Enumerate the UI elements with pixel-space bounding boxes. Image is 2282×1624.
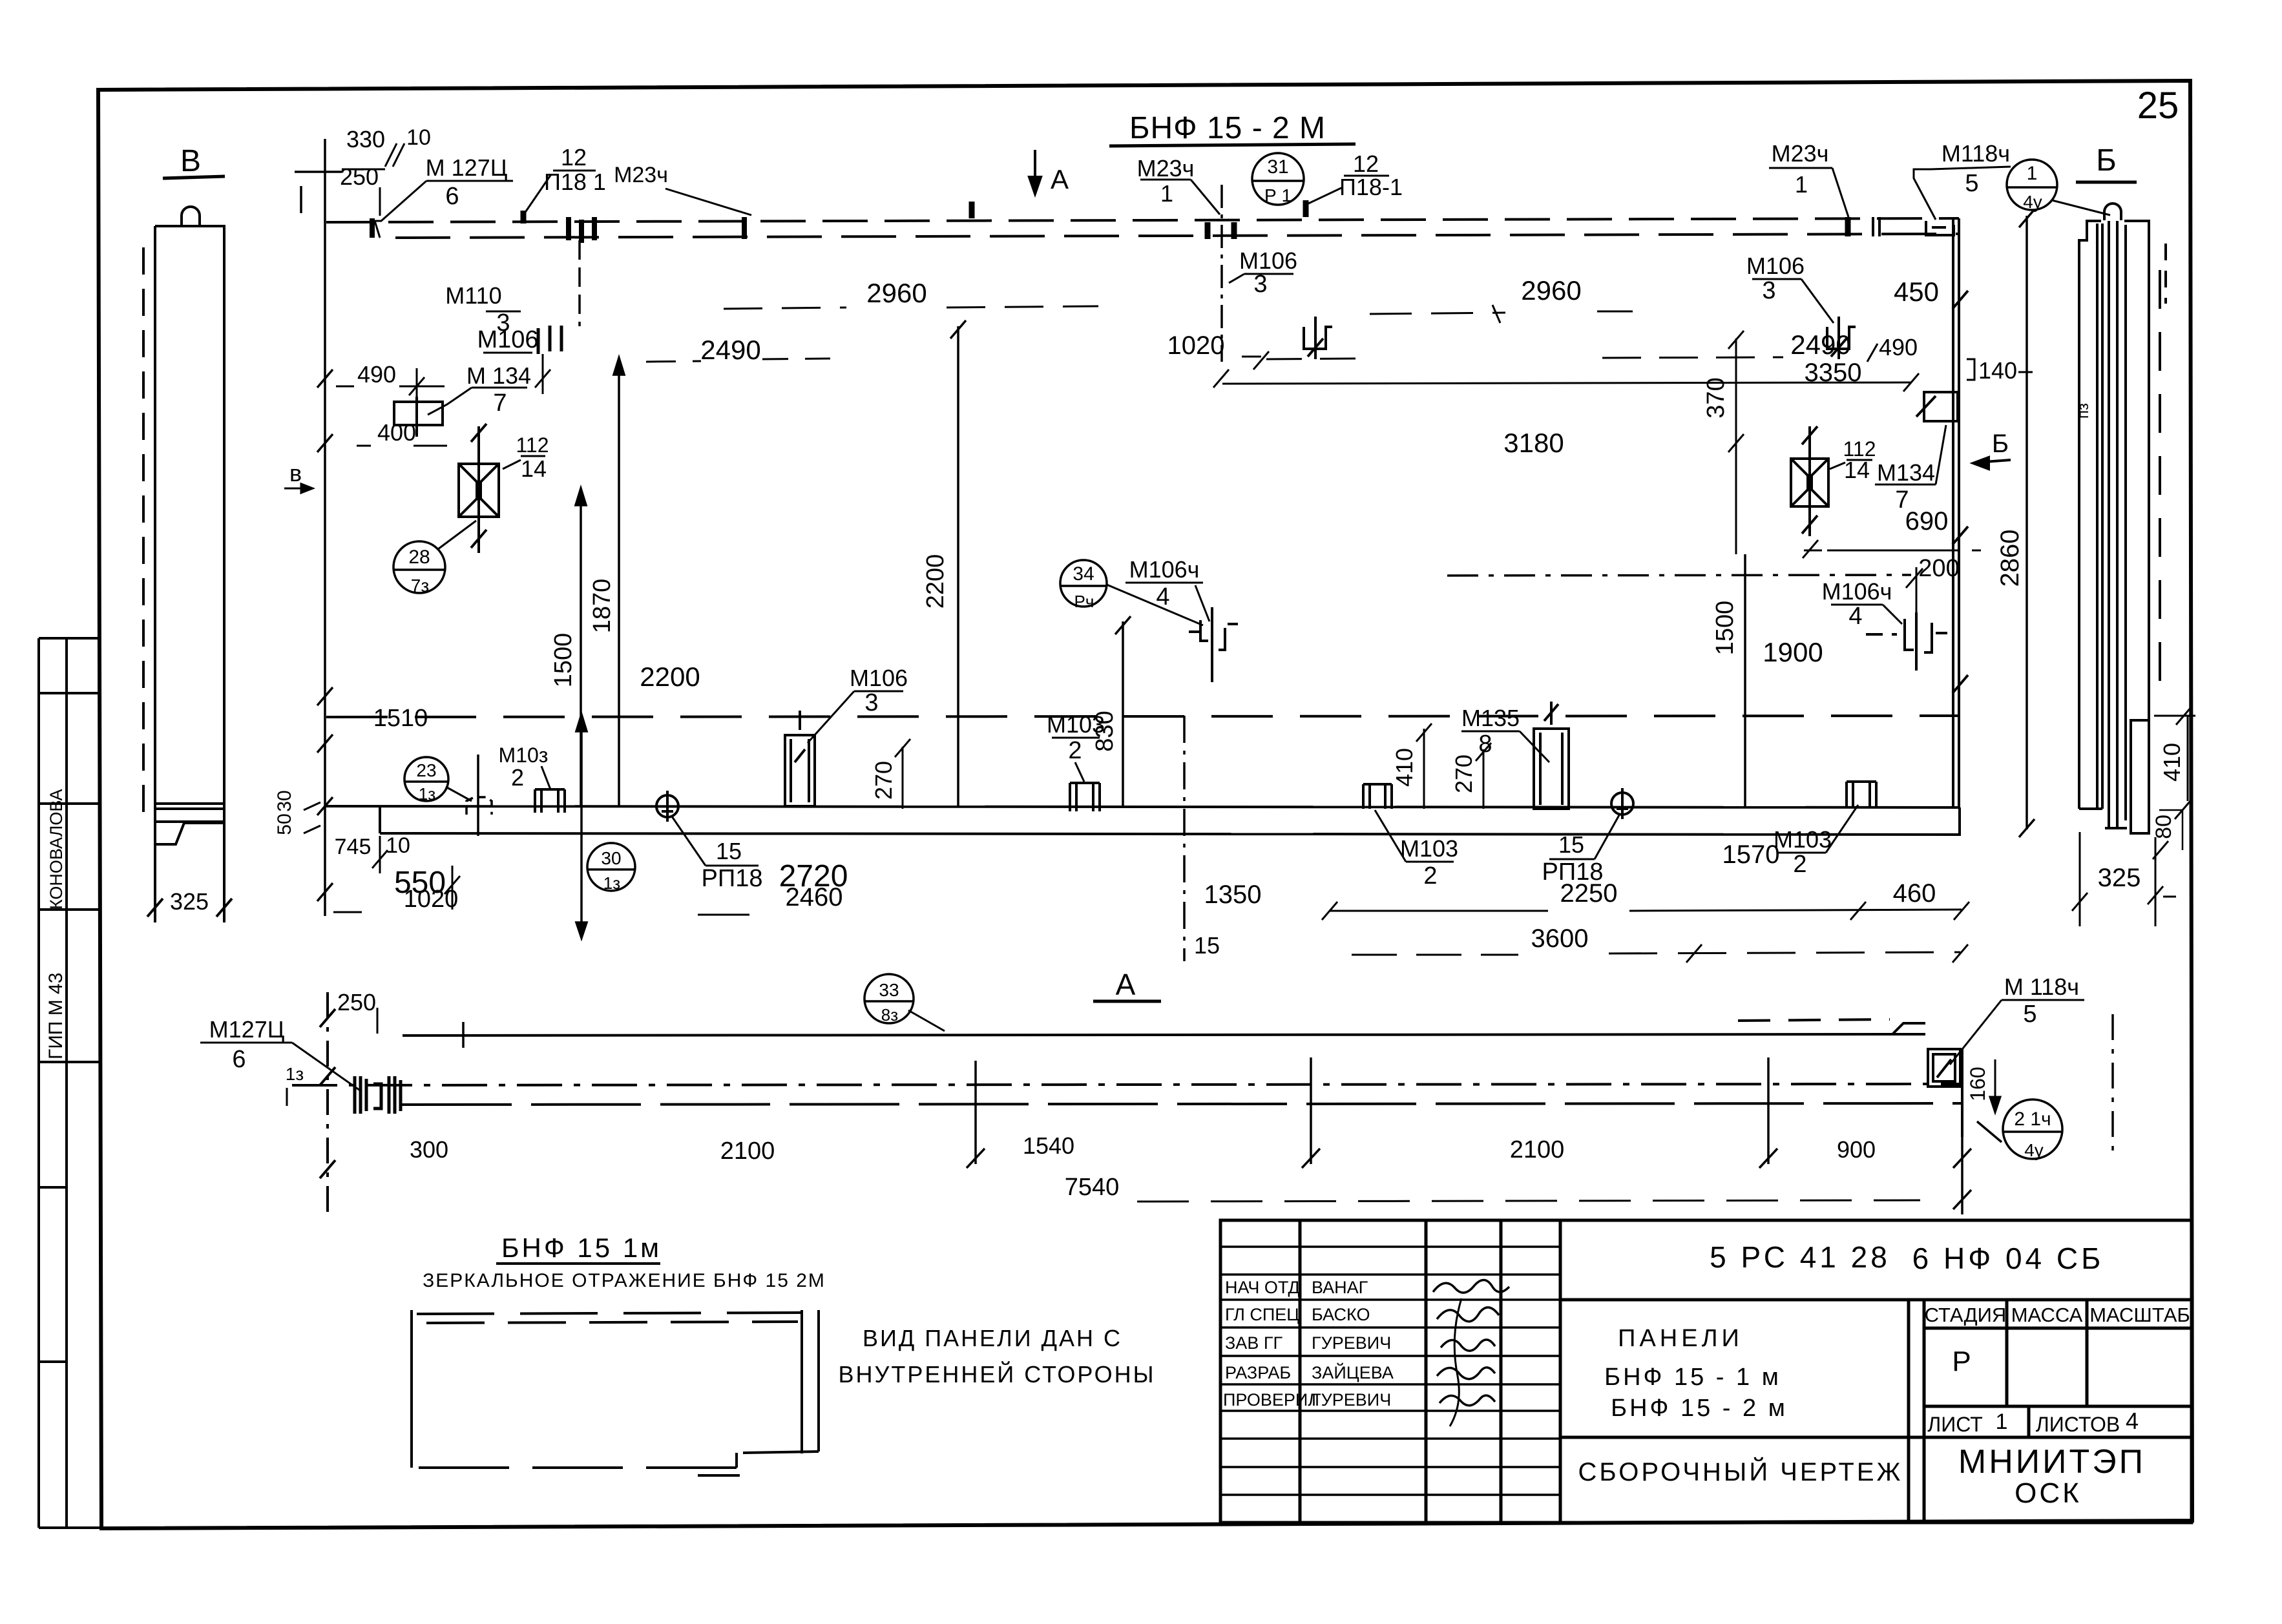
svg-text:1500: 1500 [550,633,577,688]
svg-text:370: 370 [1702,377,1730,418]
dim 2960 left [866,278,926,308]
svg-text:М134: М134 [1877,459,1935,486]
svg-text:12: 12 [561,144,587,171]
circle 28 7z [393,541,445,593]
svg-text:2 1ч: 2 1ч [2014,1109,2051,1130]
strip left connector M127C [355,1076,401,1114]
svg-text:М106: М106 [1239,247,1297,274]
B bottom [2079,807,2102,810]
label M106c 4 center [1129,556,1200,610]
svg-text:БНФ 15 1м: БНФ 15 1м [501,1233,662,1263]
svg-text:Рч: Рч [1074,592,1094,611]
dim 2200 vertical [922,554,949,609]
svg-text:пз: пз [2075,403,2092,419]
dash axis right mid [1447,575,1911,576]
svg-text:7: 7 [493,390,507,417]
dim 450 right [1894,276,1939,307]
svg-text:1з: 1з [419,784,435,804]
connector M103 left [535,789,565,813]
svg-text:БНФ 15 - 2 м: БНФ 15 - 2 м [1611,1395,1788,1422]
svg-text:250: 250 [337,989,376,1015]
svg-text:ВИД ПАНЕЛИ ДАН С: ВИД ПАНЕЛИ ДАН С [863,1325,1122,1351]
strip right connector M118c [1928,1049,1960,1087]
svg-text:34: 34 [1073,563,1094,585]
svg-text:410: 410 [1391,748,1418,787]
V dashed line [142,247,145,820]
dim 3600 line [1531,924,1589,953]
svg-text:НАЧ ОТД: НАЧ ОТД [1225,1278,1300,1297]
V 325 dim [154,844,156,922]
connector RP18 left [656,791,678,822]
svg-text:1020: 1020 [404,886,459,913]
svg-text:325: 325 [2098,864,2141,892]
svg-text:1870: 1870 [589,579,616,634]
label M103 2 mid [1047,711,1105,764]
label M110 3 M106 cluster left [445,282,538,353]
label 15 RP18 right [1542,831,1604,886]
svg-text:900: 900 [1837,1136,1876,1163]
section B arrow right [1992,430,2009,458]
circle 23 1z [404,757,448,801]
svg-text:Б: Б [2096,143,2117,178]
label M127C 6 strip [209,1016,304,1084]
extra edge ticks top [372,217,744,239]
B center slot [2108,221,2110,828]
svg-text:325: 325 [170,888,209,915]
svg-text:460: 460 [1893,879,1936,908]
label M134 7 right [1877,459,1935,514]
svg-text:10: 10 [386,833,410,858]
label M103 2 right-mid [1400,835,1458,890]
svg-text:140: 140 [1978,357,2017,384]
B outline left [2079,221,2101,809]
dim 250 strip [337,989,376,1015]
center hatch ticks [569,217,594,243]
B lower right bar [2131,720,2149,833]
svg-text:15: 15 [716,838,742,864]
svg-text:1570: 1570 [1722,840,1780,869]
mirror drawing title BNF 15 1M [423,1233,826,1291]
strip right end [1961,1049,1963,1137]
label M106 3 right upper [1746,253,1805,304]
main title BNF15-2M [1129,111,1326,145]
svg-text:СБОРОЧНЫЙ ЧЕРТЕЖ: СБОРОЧНЫЙ ЧЕРТЕЖ [1578,1457,1903,1486]
dim 830 vertical [1091,711,1118,751]
dim 490 left [357,361,396,388]
svg-text:2100: 2100 [720,1138,775,1165]
svg-text:2960: 2960 [1521,275,1581,306]
svg-text:ЛИСТОВ: ЛИСТОВ [2036,1413,2120,1436]
svg-text:23: 23 [416,760,436,780]
svg-text:М23ч: М23ч [1137,155,1195,182]
dim 2250 line [1560,879,1936,908]
svg-text:1510: 1510 [373,705,428,732]
svg-text:31: 31 [1267,156,1288,178]
dim 400 left [377,419,416,446]
title block grid [1220,1220,2192,1523]
title block stage mass scale [1925,1304,2190,1436]
label A bottom marker [1116,968,1136,1001]
connector M106c right [1866,612,1947,671]
svg-text:2100: 2100 [1510,1136,1565,1163]
svg-text:5: 5 [1965,170,1978,197]
dim 2860 vertical [1996,530,2024,587]
svg-text:2200: 2200 [922,554,949,609]
svg-text:М106: М106 [1746,253,1805,279]
dim 1870 vertical [589,579,616,634]
strip 7540 dim line [1137,1200,1920,1202]
B dashed center line [2159,270,2161,702]
page number 25 [2137,85,2179,127]
svg-text:ЗАВ ГГ: ЗАВ ГГ [1225,1333,1282,1353]
svg-text:400: 400 [377,419,416,446]
circle 21c 4u strip [2003,1099,2062,1159]
left dimension line [295,139,342,916]
label 112 14 left [516,433,549,482]
svg-text:М23ч: М23ч [1772,140,1829,167]
svg-text:1020: 1020 [1167,331,1225,360]
connector M106 tall mid [785,711,815,806]
svg-text:МАССА: МАССА [2011,1304,2083,1326]
svg-text:1: 1 [2027,163,2038,184]
svg-text:М 127Ц: М 127Ц [426,154,508,181]
svg-text:П18 1: П18 1 [544,169,606,195]
svg-text:12: 12 [1353,151,1379,177]
svg-text:14: 14 [521,455,547,482]
svg-text:270: 270 [1450,755,1477,793]
plate M134 right at edge [1916,392,1958,421]
leader line x900 [576,714,587,938]
svg-text:2460: 2460 [786,883,843,911]
label 15 RP18 left [702,838,763,892]
label 12 P18 1 (left) [544,144,606,195]
anchor M112 14 left [459,424,499,553]
dim 2960 right [1521,275,1581,306]
label M23c 1 center [1137,155,1195,207]
svg-text:М135: М135 [1461,705,1520,731]
svg-text:В: В [180,144,201,178]
label M23c small left [614,163,668,187]
svg-text:6: 6 [445,183,459,210]
svg-text:ВАНАГ: ВАНАГ [1312,1278,1368,1297]
svg-text:РП18: РП18 [702,865,763,892]
dim 30 50 step left [274,790,295,835]
svg-text:1: 1 [1160,180,1173,207]
svg-text:1з: 1з [286,1064,304,1084]
top left dims 330 10 250 [340,125,431,190]
label 12 P18-1 right [1339,151,1403,200]
title block org name [1958,1443,2146,1509]
svg-text:М23ч: М23ч [614,163,668,187]
label M135 8 [1461,705,1520,758]
circle 34 Rc [1060,560,1107,607]
label M106c 4 right [1822,578,1892,630]
svg-text:270: 270 [870,761,897,800]
svg-text:2: 2 [1423,862,1437,890]
B inner line [2096,224,2099,809]
svg-text:ГИП М 43: ГИП М 43 [45,973,67,1059]
svg-text:2200: 2200 [640,661,700,692]
svg-text:490: 490 [357,361,396,388]
svg-text:25: 25 [2137,85,2179,127]
svg-text:М110: М110 [445,282,501,309]
label M23c 1 right [1772,140,1829,198]
svg-text:745: 745 [335,835,372,859]
B hook [2104,203,2121,220]
label M106 3 center [1239,247,1297,298]
svg-text:ВНУТРЕННЕЙ СТОРОНЫ: ВНУТРЕННЕЙ СТОРОНЫ [838,1360,1155,1388]
connector M106 right upper [1827,317,1856,359]
dim 410 80 right [2151,743,2185,839]
svg-text:ГУРЕВИЧ: ГУРЕВИЧ [1312,1390,1391,1410]
center axis line [1220,185,1223,362]
stamp text KONOVALOVA [45,789,67,1059]
panel horizontal axis dashed [326,716,1958,717]
circle 1 4u [2007,160,2057,210]
anchor M112 14 right [1791,426,1828,536]
svg-text:1з: 1з [603,873,620,893]
main panel top edge dash line [326,218,1959,238]
strip axis dash-dot [292,1084,1960,1085]
svg-text:ГУРЕВИЧ: ГУРЕВИЧ [1312,1333,1391,1353]
svg-text:А: А [1116,968,1136,1001]
svg-text:7540: 7540 [1065,1174,1120,1201]
svg-text:М10з: М10з [499,744,549,767]
svg-text:200: 200 [1918,555,1959,582]
plate M134 left [394,397,443,437]
svg-text:БАСКО: БАСКО [1312,1305,1370,1324]
svg-text:МНИИТЭП: МНИИТЭП [1958,1443,2146,1481]
connector M103 right [1847,782,1876,806]
svg-text:в: в [289,460,302,486]
svg-text:450: 450 [1894,276,1939,307]
section V view (left element) [143,207,232,922]
svg-text:33: 33 [879,980,899,1000]
dim 1570 + M103 2 right [1722,826,1832,878]
svg-text:4: 4 [1848,603,1862,630]
svg-text:30: 30 [274,790,295,811]
svg-text:М127Ц: М127Ц [209,1016,285,1043]
svg-text:4: 4 [2126,1408,2139,1434]
svg-text:112: 112 [516,433,549,457]
svg-text:2960: 2960 [866,278,926,308]
svg-text:2860: 2860 [1996,530,2024,587]
strip top line [403,1034,1925,1036]
B outline right [2124,221,2149,720]
svg-text:3180: 3180 [1503,428,1564,458]
svg-text:30: 30 [601,848,621,868]
circle 31 R1 [1252,153,1304,205]
title block object name [1578,1325,1903,1486]
svg-text:2: 2 [511,764,524,791]
svg-text:1540: 1540 [1023,1132,1074,1159]
dim 270 vertical left [870,761,897,800]
svg-text:3600: 3600 [1531,924,1589,953]
svg-text:ПАНЕЛИ: ПАНЕЛИ [1618,1325,1743,1352]
connector M103 mid [1070,783,1100,811]
svg-text:Б: Б [1992,430,2009,458]
svg-text:8: 8 [1478,731,1492,758]
dim 3180 [1503,428,1564,458]
svg-text:4у: 4у [2024,1140,2044,1160]
dim 2200 text left [640,661,700,692]
V foot [155,823,224,844]
dim 690 [1905,507,1949,536]
svg-text:ЗЕРКАЛЬНОЕ ОТРАЖЕНИЕ БНФ 15: ЗЕРКАЛЬНОЕ ОТРАЖЕНИЕ БНФ 15 2М [423,1270,826,1291]
label M106 3 above mid connector [850,665,908,716]
svg-text:СТАДИЯ: СТАДИЯ [1925,1304,2007,1326]
svg-text:490: 490 [1879,334,1918,360]
V lifting hook [182,207,200,226]
dim 2720 2460 [779,859,848,911]
svg-text:15: 15 [1194,932,1220,959]
svg-text:ОСК: ОСК [2015,1477,2082,1509]
label V [170,144,209,915]
label M118c 5 strip [2004,973,2079,1028]
svg-text:Р 1: Р 1 [1264,185,1292,205]
dim 1900 [1763,637,1823,667]
svg-text:1: 1 [1795,171,1808,198]
label M127C 6 top [426,154,508,210]
svg-text:ПРОВЕРИЛ: ПРОВЕРИЛ [1223,1390,1319,1410]
svg-text:160: 160 [1966,1067,1989,1101]
svg-text:2: 2 [1068,737,1082,764]
label M134 7 left [466,362,531,417]
dim 200 right [1918,555,1959,582]
svg-text:М106: М106 [850,665,908,691]
svg-text:80: 80 [2151,815,2176,839]
svg-text:БНФ 15 - 1 м: БНФ 15 - 1 м [1604,1364,1781,1391]
dim 1020 center [1167,331,1225,360]
dim 325 right side [2098,864,2141,892]
svg-text:М106ч: М106ч [1129,556,1200,583]
svg-text:БНФ 15 - 2 М: БНФ 15 - 2 М [1129,111,1326,145]
connector M106 center top [1304,317,1332,359]
svg-text:3: 3 [864,689,878,716]
strip A view [292,992,1962,1213]
dim 2490 right and 3350 [1790,329,2017,387]
svg-text:2: 2 [1793,851,1806,878]
connector symbol at M106 top [538,326,561,354]
svg-text:8з: 8з [881,1005,898,1025]
title block doc number [1710,1240,2104,1275]
svg-text:М118ч: М118ч [1942,140,2010,167]
note text [838,1325,1155,1388]
svg-text:28: 28 [408,547,430,568]
svg-text:300: 300 [410,1136,448,1163]
svg-text:690: 690 [1905,507,1949,536]
strip ticks [463,1022,1971,1214]
svg-text:250: 250 [340,163,379,190]
svg-text:410: 410 [2159,743,2185,782]
svg-text:М103: М103 [1400,835,1458,862]
dim 410 270 right group [1391,748,1477,793]
svg-text:6 НФ 04 СБ: 6 НФ 04 СБ [1912,1242,2104,1275]
svg-text:15: 15 [1558,831,1584,858]
V outline [155,226,224,822]
svg-text:330: 330 [346,126,385,152]
svg-text:П18-1: П18-1 [1339,174,1403,200]
label A top marker [1029,150,1041,194]
mirror drawing outline [412,1310,819,1475]
svg-text:КОНОВАЛОВА: КОНОВАЛОВА [47,789,66,910]
svg-text:1500: 1500 [1711,601,1739,656]
svg-text:РАЗРАБ: РАЗРАБ [1225,1363,1291,1382]
svg-text:М103: М103 [1774,826,1832,853]
strip left dash-dot vertical [326,992,329,1213]
svg-text:7з: 7з [411,576,429,596]
svg-text:МАСШТАБ: МАСШТАБ [2089,1304,2190,1326]
section B title right [2096,143,2117,178]
label M10z 2 [499,744,549,791]
svg-text:Р: Р [1952,1346,1971,1377]
svg-text:А: А [1051,164,1069,194]
dims 745 10 550 1020 [335,833,459,913]
dim 2490 left [700,335,760,365]
strip bottom line [402,1103,1962,1105]
svg-text:1350: 1350 [1204,880,1262,909]
connector M135 tall [1534,702,1569,809]
left margin stamp column [39,638,101,1528]
connector M118c top [1926,221,1954,235]
dim 1500 vertical right [1711,601,1739,656]
short axis below hatch cluster [578,240,581,326]
svg-text:ЗАЙЦЕВА: ЗАЙЦЕВА [1312,1362,1394,1382]
svg-text:3: 3 [1762,277,1775,304]
svg-text:10: 10 [406,125,431,150]
panel bottom edge [325,806,1961,835]
dim 370 vertical [1702,377,1730,418]
label M118c 5 top [1942,140,2010,197]
svg-text:1: 1 [1996,1410,2008,1434]
connector RP18 right [1611,788,1633,819]
B small label P [2075,403,2092,419]
circle 33 8z [864,974,914,1023]
svg-text:М106: М106 [477,326,538,353]
svg-text:М 118ч: М 118ч [2004,973,2079,1000]
connector M103 right-mid [1363,784,1392,809]
svg-text:ЛИСТ: ЛИСТ [1927,1413,1983,1436]
svg-text:М 134: М 134 [466,362,531,389]
svg-text:5 РС 41 28: 5 РС 41 28 [1710,1240,1890,1274]
svg-text:50: 50 [274,813,295,835]
title block names column [1223,1278,1394,1410]
strip dims 300 2100 1540 2100 900 7540 [410,1132,1876,1201]
arrow marker v [289,460,302,486]
svg-text:5: 5 [2023,1001,2036,1028]
svg-text:6: 6 [232,1046,246,1073]
dim 1350 and 15 [1194,880,1262,959]
circle 30 1z [587,843,635,891]
signatures scribble [1433,1280,1509,1426]
connector M106c center [1189,607,1238,682]
dim 1510 [373,705,428,732]
label 112 14 right [1843,437,1876,483]
dashed connector box left [466,755,492,836]
svg-text:М106ч: М106ч [1822,578,1892,605]
svg-text:1900: 1900 [1763,637,1823,667]
svg-text:М103: М103 [1047,711,1105,738]
strip right dash-dot [2111,1014,2114,1156]
dim 160 strip [1966,1067,1989,1101]
tick P18 left [523,202,972,224]
svg-text:4у: 4у [2023,192,2042,212]
dim 1500 vertical left [550,633,577,688]
svg-text:ГЛ СПЕЦ: ГЛ СПЕЦ [1225,1305,1299,1324]
section B view right element [2079,203,2166,833]
panel right edge [1952,218,1968,807]
dash-dot vertical 1350 area [1183,716,1186,961]
